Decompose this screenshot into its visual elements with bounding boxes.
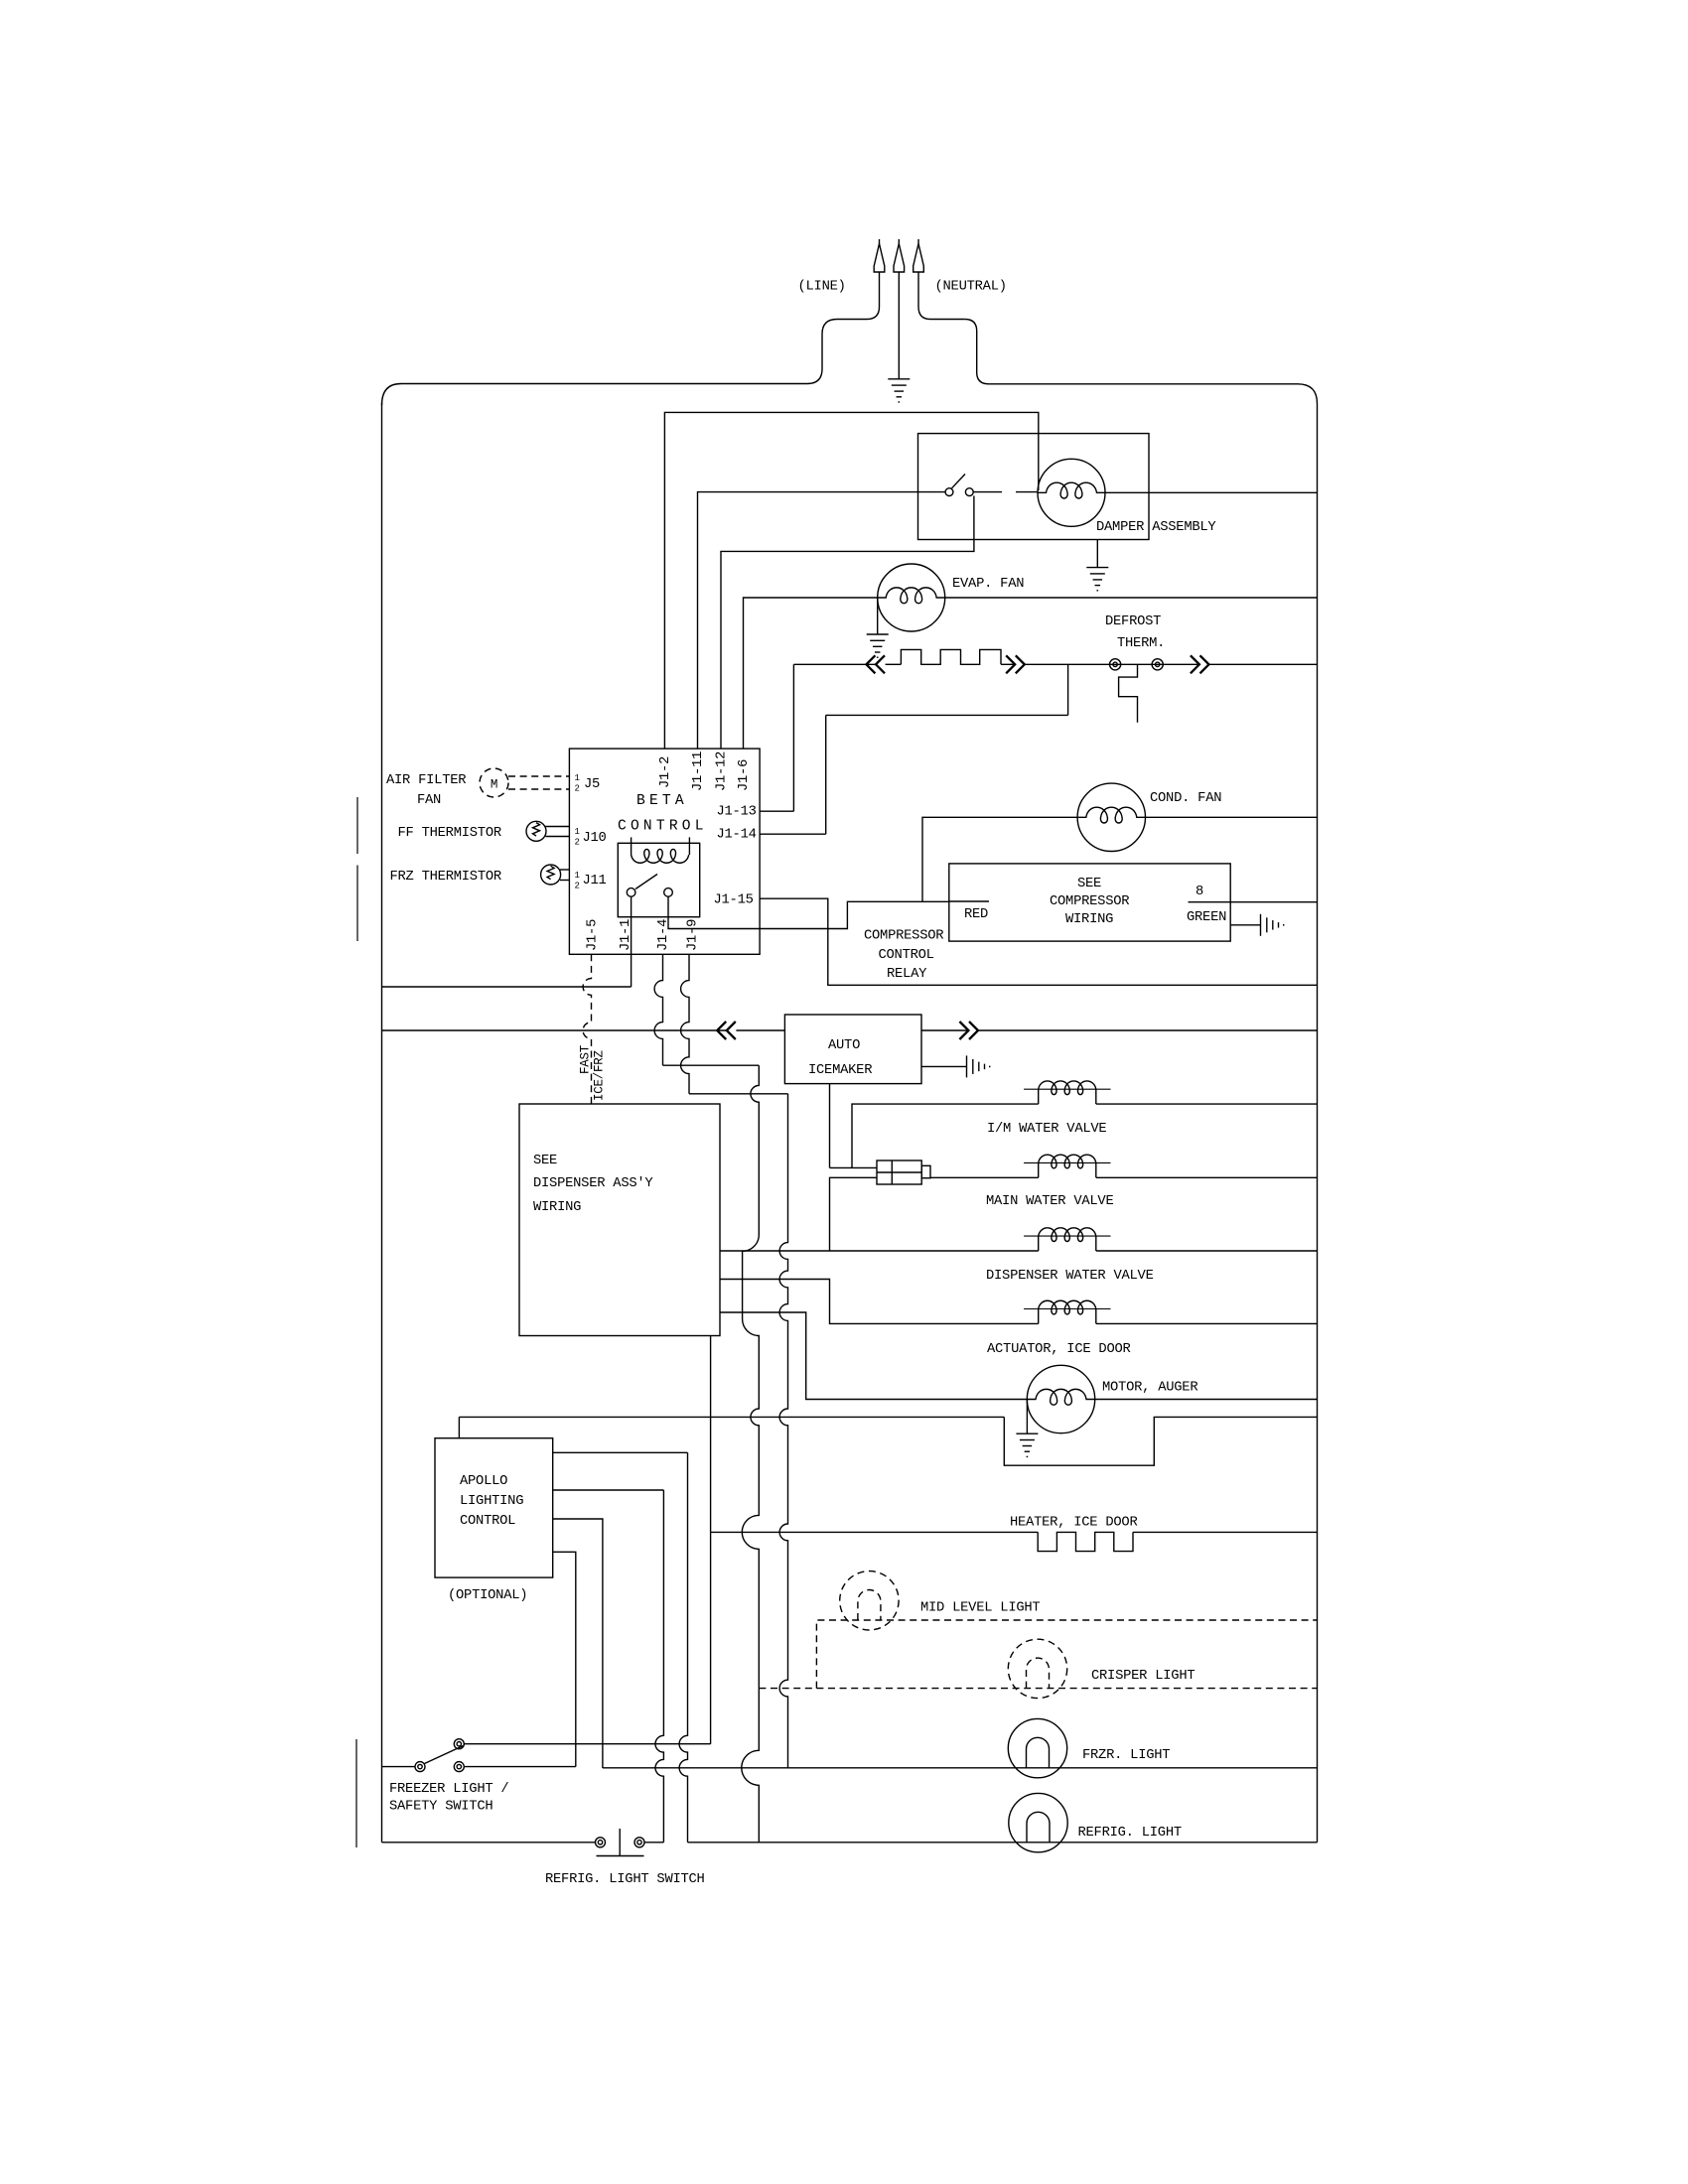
wire motor auger feed (720, 1312, 1027, 1400)
svg-text:SEE: SEE (1077, 877, 1101, 891)
tick mark upper (356, 797, 358, 854)
coil motor auger winding (1028, 1389, 1095, 1405)
box SEE COMPRESSOR WIRING (949, 864, 1230, 941)
wire apollo out2 (553, 1489, 664, 1491)
box APOLLO LIGHTING CONTROL (435, 1438, 553, 1577)
wire defrost run (1025, 663, 1199, 665)
motor air filter fan M circle (480, 768, 508, 797)
wire icemaker to border (978, 1029, 1318, 1031)
plug prong GROUND (898, 239, 900, 246)
svg-text:1: 1 (575, 871, 580, 881)
svg-text:(OPTIONAL): (OPTIONAL) (448, 1587, 527, 1603)
wire cond fan to right border (1146, 816, 1318, 818)
svg-text:ACTUATOR, ICE DOOR: ACTUATOR, ICE DOOR (987, 1342, 1131, 1357)
thermistor FRZ symbol (541, 865, 561, 885)
wire apollo out2 drop (655, 1490, 663, 1843)
tick mark lower (355, 1739, 357, 1847)
wire left border (381, 403, 383, 1843)
wire motor bypass jog (1004, 1417, 1317, 1465)
wire frzr light run (603, 1767, 1318, 1769)
coil ACTUATOR ice door (1024, 1308, 1110, 1310)
motor evap fan circle (878, 564, 945, 631)
wire coil heater left (793, 663, 876, 665)
lamp MID LEVEL light (840, 1571, 899, 1630)
coil DISPENSER water valve (1024, 1235, 1110, 1237)
switch refrig terminal A (596, 1838, 606, 1847)
wire top border right corner (1298, 384, 1318, 404)
svg-text:J11: J11 (583, 874, 607, 888)
wire heater ice door to border (1133, 1531, 1318, 1533)
switch freezer NO terminal (454, 1762, 464, 1772)
wire connector bottom feed (830, 1177, 878, 1251)
wire line prong lead (867, 272, 880, 320)
svg-text:2: 2 (575, 784, 580, 794)
wire J1-2 to damper coil top run (664, 412, 1038, 748)
wire heater ice door run (711, 1531, 1039, 1533)
plug prong LINE (879, 239, 881, 246)
svg-text:REFRIG. LIGHT SWITCH: REFRIG. LIGHT SWITCH (545, 1872, 705, 1887)
svg-text:REFRIG. LIGHT: REFRIG. LIGHT (1078, 1826, 1182, 1841)
wire chevron to heater (886, 663, 902, 665)
wire motor auger ground stem (1026, 1400, 1028, 1434)
heater coil heater element (901, 649, 1001, 664)
svg-text:J1-12: J1-12 (715, 751, 730, 791)
switch damper lever (952, 475, 966, 488)
wire right border (1317, 404, 1319, 1843)
wire mid level dashed run (816, 1620, 1317, 1689)
arrow icemaker right chevrons (959, 1022, 978, 1039)
svg-text:LIGHTING: LIGHTING (460, 1494, 523, 1509)
svg-text:J1-14: J1-14 (717, 828, 757, 843)
svg-text:CONTROL: CONTROL (460, 1514, 515, 1529)
svg-text:MAIN WATER VALVE: MAIN WATER VALVE (986, 1194, 1113, 1209)
svg-text:THERM.: THERM. (1117, 636, 1165, 651)
wire J1-1 net (382, 986, 632, 988)
arrow coil heater left chevrons (866, 655, 885, 673)
svg-text:I/M WATER VALVE: I/M WATER VALVE (987, 1121, 1106, 1137)
svg-text:DEFROST: DEFROST (1105, 614, 1161, 629)
wire freezer NO run (465, 1766, 576, 1768)
wire damper coil to right border (1105, 491, 1318, 493)
terminal defrost thermostat right (1152, 659, 1163, 670)
svg-text:RED: RED (964, 907, 988, 922)
svg-text:AUTO: AUTO (828, 1038, 860, 1053)
relay contact left (627, 888, 635, 897)
svg-text:J1-2: J1-2 (658, 756, 673, 788)
wire main valve run (930, 1176, 1039, 1178)
ground compressor (rotated) (1261, 914, 1284, 936)
ground plug earth (888, 379, 910, 402)
svg-text:SEE: SEE (533, 1154, 557, 1168)
svg-text:M: M (491, 777, 497, 791)
wire defrost lower run (826, 714, 1068, 716)
coil MAIN water valve (1024, 1161, 1110, 1163)
terminal defrost thermostat left (1110, 659, 1121, 670)
svg-text:RELAY: RELAY (887, 967, 927, 982)
svg-text:FREEZER LIGHT /: FREEZER LIGHT / (389, 1781, 508, 1797)
wire icemaker bottom drop A (829, 1084, 831, 1168)
lamp REFRIG light (1009, 1793, 1067, 1851)
relay box (618, 843, 699, 916)
switch refrig terminal B (634, 1838, 644, 1847)
wire apollo top riser (458, 1417, 460, 1437)
wire J1-13 riser (792, 664, 794, 811)
plug prong NEUTRAL (917, 239, 919, 246)
wire GREEN tick to border (1189, 901, 1318, 903)
svg-text:MOTOR, AUGER: MOTOR, AUGER (1102, 1381, 1197, 1396)
svg-text:ICEMAKER: ICEMAKER (808, 1063, 872, 1078)
switch refrig actuator (619, 1829, 621, 1856)
svg-text:ICE/FRZ: ICE/FRZ (593, 1049, 607, 1101)
wire freezer switch common stub (382, 1766, 416, 1768)
wire actuator feed (720, 1280, 1039, 1324)
lamp FRZR light (1008, 1718, 1066, 1777)
wire evap fan to right border (945, 597, 1318, 599)
box BETA CONTROL (569, 749, 760, 954)
switch freezer NC terminal (454, 1739, 464, 1749)
wire apollo return run (459, 1416, 1004, 1418)
svg-text:COMPRESSOR: COMPRESSOR (864, 929, 943, 944)
wire compressor ground stub (1230, 924, 1260, 926)
motor auger circle (1027, 1365, 1094, 1433)
svg-text:WIRING: WIRING (533, 1200, 581, 1215)
relay contact right (664, 888, 673, 897)
svg-text:J1-13: J1-13 (717, 805, 757, 820)
wire actuator to border (1096, 1322, 1318, 1324)
wire J1-11 to damper switch (698, 492, 946, 749)
coil cond fan winding (1077, 807, 1145, 823)
wire J1-6 to evap fan (744, 598, 878, 749)
connector main valve tab (921, 1165, 930, 1177)
wire refrig switch to apollo riser (645, 1842, 664, 1843)
wire J1-4 drop (654, 954, 662, 1065)
svg-text:COND. FAN: COND. FAN (1150, 791, 1221, 806)
svg-text:(LINE): (LINE) (798, 279, 846, 295)
svg-text:SAFETY SWITCH: SAFETY SWITCH (389, 1800, 492, 1815)
svg-text:2: 2 (575, 838, 580, 848)
wire J1-4 descent frzr hop (742, 1689, 760, 1843)
ground damper (1086, 568, 1108, 591)
wire dispenser valve to border (1096, 1250, 1318, 1252)
svg-text:APOLLO: APOLLO (460, 1474, 507, 1489)
svg-text:FF THERMISTOR: FF THERMISTOR (398, 826, 501, 841)
svg-text:FAST: FAST (579, 1044, 593, 1074)
svg-text:FRZR. LIGHT: FRZR. LIGHT (1082, 1748, 1170, 1763)
ground evap fan (867, 634, 889, 657)
wire I/M valve to border (1096, 1103, 1318, 1105)
wire J1-5 fast ice dashed (583, 954, 591, 1104)
wire damper switch to J1-12 (721, 496, 974, 749)
wire J1-9 descent (779, 1094, 787, 1768)
wire dispenser valve run (720, 1250, 1039, 1252)
box AUTO ICEMAKER (784, 1015, 921, 1084)
wire J1-15 run (760, 898, 1317, 985)
wire apollo out1 drop (679, 1452, 687, 1843)
wire relay left contact to J1-1 (631, 896, 633, 987)
svg-text:J1-11: J1-11 (691, 751, 706, 791)
heater ice door element (1038, 1532, 1133, 1551)
svg-text:J1-5: J1-5 (586, 919, 601, 951)
svg-text:J5: J5 (584, 777, 600, 792)
svg-text:(NEUTRAL): (NEUTRAL) (935, 279, 1007, 295)
arrow coil heater right chevrons (1006, 655, 1025, 673)
relay coil winding (632, 849, 689, 863)
svg-text:HEATER, ICE DOOR: HEATER, ICE DOOR (1010, 1515, 1137, 1530)
coil evap fan winding (878, 588, 945, 604)
wire J10 pair (546, 826, 570, 828)
wire apollo out3 (553, 1519, 603, 1768)
switch freezer common terminal (415, 1762, 425, 1772)
coil I/M water valve (1024, 1088, 1110, 1090)
svg-text:CRISPER LIGHT: CRISPER LIGHT (1091, 1669, 1195, 1684)
wire relay right contact out (668, 896, 949, 928)
svg-text:WIRING: WIRING (1065, 912, 1113, 927)
svg-text:FRZ THERMISTOR: FRZ THERMISTOR (390, 870, 501, 885)
svg-text:FAN: FAN (417, 793, 441, 808)
svg-text:J1-9: J1-9 (686, 919, 701, 951)
coil damper winding (1038, 482, 1105, 498)
svg-text:AIR FILTER: AIR FILTER (386, 773, 466, 788)
tick mark middle (356, 866, 358, 942)
wire damper switch to coil (broken) (974, 491, 1003, 493)
svg-text:BETA: BETA (636, 793, 688, 809)
wire damper ground stem (1096, 540, 1098, 568)
svg-text:1: 1 (575, 827, 580, 837)
lamp CRISPER light (1008, 1639, 1066, 1698)
wire heater to chevrons (1001, 663, 1016, 665)
svg-text:MID LEVEL LIGHT: MID LEVEL LIGHT (920, 1601, 1040, 1616)
box SEE DISPENSER ASSY WIRING (519, 1104, 720, 1336)
wire icemaker right (921, 1029, 969, 1031)
wire J1-4 step (663, 1064, 760, 1066)
wire motor auger to border (1095, 1399, 1318, 1401)
svg-text:DAMPER ASSEMBLY: DAMPER ASSEMBLY (1096, 520, 1216, 535)
relay coil stubs (631, 837, 633, 855)
wire J1-14 stub (760, 833, 826, 835)
svg-text:J1-6: J1-6 (737, 759, 752, 791)
wire icemaker feed (382, 1029, 727, 1031)
thermistor FF symbol (526, 821, 546, 841)
wire neutral prong lead (918, 272, 965, 320)
svg-text:J10: J10 (583, 831, 607, 846)
wire cond fan left + drop (922, 817, 1077, 901)
svg-text:CONTROL: CONTROL (618, 819, 708, 835)
wire top border left with corner (382, 384, 808, 406)
svg-text:EVAP. FAN: EVAP. FAN (952, 577, 1024, 592)
wire line-side riser (807, 320, 867, 384)
svg-text:DISPENSER ASS'Y: DISPENSER ASS'Y (533, 1175, 653, 1191)
switch damper terminal B (965, 488, 973, 496)
svg-text:GREEN: GREEN (1187, 910, 1226, 925)
connector main valve body (877, 1160, 921, 1184)
wire J1-9 drop (681, 954, 689, 1094)
relay switch lever (635, 875, 657, 889)
svg-text:DISPENSER WATER VALVE: DISPENSER WATER VALVE (986, 1269, 1154, 1284)
wire connector top feed (830, 1166, 878, 1168)
wire main valve to border (1096, 1176, 1318, 1178)
wire ground prong stem (898, 272, 900, 379)
svg-text:CONTROL: CONTROL (879, 948, 934, 963)
arrow defrost right chevrons (1191, 655, 1209, 673)
svg-text:2: 2 (575, 882, 580, 891)
wire neutral riser (965, 320, 1298, 384)
motor cond fan circle (1077, 783, 1145, 851)
svg-text:COMPRESSOR: COMPRESSOR (1050, 894, 1129, 909)
svg-text:J1-15: J1-15 (714, 893, 754, 908)
wire chevron to icemaker box (736, 1029, 784, 1031)
wire J1-13 stub (760, 810, 793, 812)
wire evap fan ground stem (877, 598, 879, 634)
svg-text:1: 1 (575, 773, 580, 783)
wire dispenser box bottom drop (710, 1336, 712, 1744)
wire J1-14 riser (825, 715, 827, 834)
wire J1-4 descent with jog (742, 1065, 759, 1688)
ground icemaker (rotated) (967, 1055, 990, 1077)
wire defrost lower riser (1067, 664, 1069, 715)
wire J5 dashed pair (508, 775, 569, 777)
wire icemaker ground stub (921, 1065, 967, 1067)
wire apollo out4 (553, 1552, 576, 1766)
wire crisper dashed run (759, 1688, 1317, 1690)
wire J11 pair (560, 869, 569, 871)
wire freezer NC run (465, 1743, 711, 1745)
switch freezer lever (425, 1746, 464, 1764)
wire J1-9 step (689, 1093, 788, 1095)
motor damper coil circle (1038, 459, 1105, 526)
wire apollo out1 (553, 1451, 688, 1453)
ground motor auger (1016, 1433, 1038, 1456)
svg-text:8: 8 (1196, 885, 1203, 899)
wire I/M valve feed (852, 1104, 1039, 1167)
wire bottom left segment (382, 1842, 596, 1843)
box damper assembly (918, 434, 1150, 540)
wire RED tick (949, 900, 989, 902)
defrost thermostat bimetal stub (1119, 664, 1138, 723)
wire bottom right segment (688, 1842, 1318, 1843)
arrow icemaker left chevrons (717, 1022, 736, 1039)
switch damper terminal A (945, 488, 953, 496)
